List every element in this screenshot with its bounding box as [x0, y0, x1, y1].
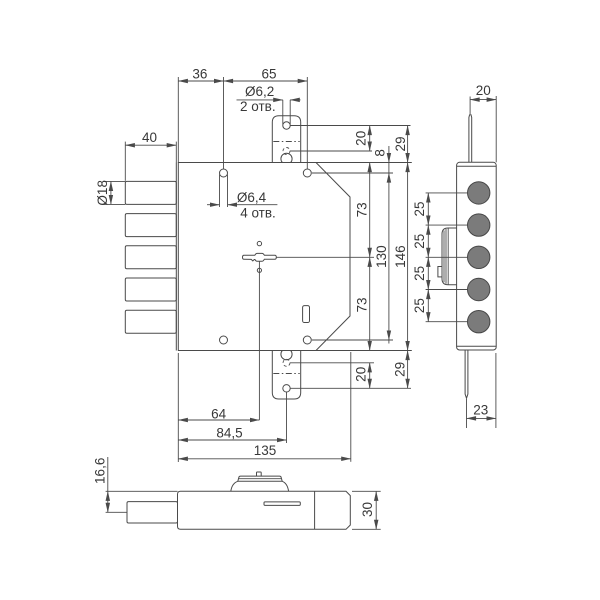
- dim 30: [375, 491, 377, 529]
- svg-text:4 отв.: 4 отв.: [240, 206, 276, 221]
- ext bottom hole leader: [290, 387, 411, 389]
- top bracket hole: [283, 122, 290, 129]
- dim 73 bottom: [369, 257, 371, 350]
- ext key line: [276, 256, 374, 258]
- ext top hole leader: [290, 125, 410, 127]
- dim dia18: [110, 181, 112, 204]
- key cross-section: [243, 253, 277, 261]
- dia6.2 ext right: [289, 100, 291, 125]
- dim 16,6: [107, 457, 109, 491]
- bottom bracket dashed circle: [283, 359, 290, 366]
- tick line bolt1: [426, 192, 468, 194]
- housing small tab: [438, 267, 442, 277]
- svg-text:Ø6,4: Ø6,4: [237, 190, 267, 205]
- svg-text:40: 40: [142, 130, 157, 145]
- bolt 4: [125, 278, 176, 301]
- top bracket dashed circle: [283, 148, 290, 155]
- dim 36: [178, 80, 223, 82]
- side bolt 1: [468, 182, 490, 204]
- dia6.4 ext right: [227, 175, 229, 208]
- ext 20 side right: [495, 96, 497, 162]
- ext body top edge right: [316, 162, 412, 164]
- dim 146: [407, 163, 409, 351]
- bolt 3: [125, 246, 176, 269]
- tick line bolt4: [426, 289, 468, 291]
- cylinder cap band: [238, 476, 282, 481]
- ext 30 top: [352, 490, 381, 492]
- small circle below key: [257, 268, 261, 272]
- bolt 1: [125, 181, 176, 204]
- ext 23 side left: [466, 399, 468, 428]
- side plate inner bottom line: [457, 345, 497, 347]
- small circle above key: [257, 241, 261, 245]
- svg-text:25: 25: [412, 234, 427, 249]
- dia6.4 ext left: [219, 175, 221, 208]
- bottom view divider: [314, 491, 316, 529]
- svg-text:30: 30: [360, 502, 375, 517]
- cylinder cap nub: [257, 472, 262, 476]
- top bracket lower circle: [281, 153, 292, 162]
- svg-text:73: 73: [354, 297, 369, 312]
- tick line bolt2: [426, 224, 468, 226]
- screw hole top-left: [220, 169, 228, 177]
- ext bottom hole row: [312, 339, 393, 341]
- lock body outline: [178, 163, 350, 351]
- svg-text:64: 64: [211, 406, 227, 421]
- svg-text:Ø18: Ø18: [95, 180, 110, 206]
- ext line body left top: [177, 77, 179, 163]
- housing inner line 3: [447, 228, 449, 285]
- screw hole bottom-left: [220, 336, 228, 344]
- dim chain 25 vertical line: [427, 193, 429, 225]
- svg-text:84,5: 84,5: [216, 425, 242, 440]
- cylinder cap base: [231, 481, 289, 491]
- ext 20 side left: [469, 97, 471, 115]
- ext body bottom edge right: [316, 350, 412, 352]
- bottom bracket dash-dot line: [273, 373, 299, 375]
- ext body top left: [106, 490, 178, 492]
- side faceplate: [457, 162, 497, 350]
- svg-text:25: 25: [412, 201, 427, 216]
- side plate inner top line: [457, 165, 497, 167]
- dim 29 top: [407, 126, 409, 163]
- svg-text:73: 73: [354, 202, 369, 217]
- svg-text:8: 8: [373, 149, 388, 157]
- ext key vertical: [258, 261, 260, 420]
- dia6.2 ext left: [282, 100, 284, 125]
- dia6.2 right arrow: [290, 99, 300, 101]
- bolt 2: [125, 214, 176, 237]
- dim 65: [224, 80, 308, 82]
- bottom rod: [465, 350, 468, 398]
- dim 20 top: [369, 126, 371, 152]
- ext body right bottom: [350, 352, 352, 462]
- side bolt 2: [468, 214, 490, 236]
- dia6.4 left arrow: [207, 204, 220, 206]
- svg-text:29: 29: [393, 136, 408, 151]
- svg-text:130: 130: [374, 245, 389, 268]
- dim 23 side: [467, 417, 496, 419]
- bottom mounting bracket: [272, 351, 300, 400]
- cylinder housing: [442, 228, 457, 285]
- faceplate front edge line: [175, 163, 177, 351]
- dia6.2 underline + left arrow: [237, 99, 283, 101]
- tick line bolt3: [426, 256, 468, 258]
- dim 130: [388, 173, 390, 340]
- svg-text:16,6: 16,6: [93, 458, 108, 484]
- dim 64: [178, 419, 259, 421]
- svg-text:65: 65: [261, 66, 276, 81]
- dia18 ext top: [103, 180, 126, 182]
- bottom view bolt: [127, 502, 178, 523]
- ext top hole row: [312, 172, 393, 174]
- bottom bracket hole: [283, 385, 290, 392]
- ext bottom bracket hole vertical: [286, 392, 288, 443]
- svg-text:2 отв.: 2 отв.: [240, 99, 276, 114]
- top mounting bracket: [272, 116, 300, 163]
- side bolt 4: [468, 278, 490, 300]
- side bolt 5: [468, 311, 490, 333]
- top bracket dash-dot line: [273, 141, 299, 143]
- dim 135: [178, 458, 350, 460]
- svg-text:36: 36: [192, 66, 207, 81]
- ext bolt axis: [106, 511, 127, 513]
- svg-text:146: 146: [393, 245, 408, 268]
- ext 30 bottom: [352, 528, 381, 530]
- svg-text:20: 20: [353, 367, 368, 382]
- dim 8: [388, 146, 390, 163]
- housing inner line 1: [443, 231, 445, 283]
- svg-text:20: 20: [354, 131, 369, 146]
- cylinder cap band inner line: [238, 478, 281, 480]
- svg-text:23: 23: [473, 402, 488, 417]
- tick line bolt5: [426, 321, 468, 323]
- side bolt 3: [468, 246, 490, 268]
- dia18 ext bottom: [103, 203, 126, 205]
- dim 20 bottom: [369, 363, 371, 389]
- svg-text:135: 135: [254, 443, 277, 458]
- dim 84,5: [178, 439, 286, 441]
- svg-text:25: 25: [412, 298, 427, 313]
- bolt 5: [125, 310, 176, 333]
- ext line hole left: [223, 77, 225, 169]
- svg-text:25: 25: [412, 266, 427, 281]
- dim 40: [125, 144, 176, 146]
- screw hole top-right: [303, 169, 311, 177]
- bottom view slot: [264, 502, 300, 506]
- ext body left bottom: [177, 353, 179, 462]
- ext 23 side right: [495, 353, 497, 428]
- svg-text:20: 20: [476, 83, 491, 98]
- ext bottom dashed circle leader: [290, 362, 374, 364]
- screw hole bottom-right: [303, 336, 311, 344]
- ext 40 right: [175, 142, 177, 163]
- ext 40 left: [124, 142, 126, 181]
- top rod: [469, 115, 472, 163]
- svg-text:Ø6,2: Ø6,2: [245, 84, 274, 99]
- bottom bracket upper circle: [281, 351, 292, 360]
- keyhole slot: [303, 306, 310, 323]
- housing inner line 2: [445, 229, 447, 284]
- ext line hole right: [306, 77, 308, 169]
- bottom view body: [178, 491, 351, 529]
- svg-text:29: 29: [393, 362, 408, 377]
- dim 29 bottom: [407, 351, 409, 389]
- dim 73 top: [369, 163, 371, 258]
- dia6.4 underline + right arrow: [228, 204, 278, 206]
- ext top dashed circle leader: [290, 150, 372, 152]
- dim 20 side: [470, 99, 496, 101]
